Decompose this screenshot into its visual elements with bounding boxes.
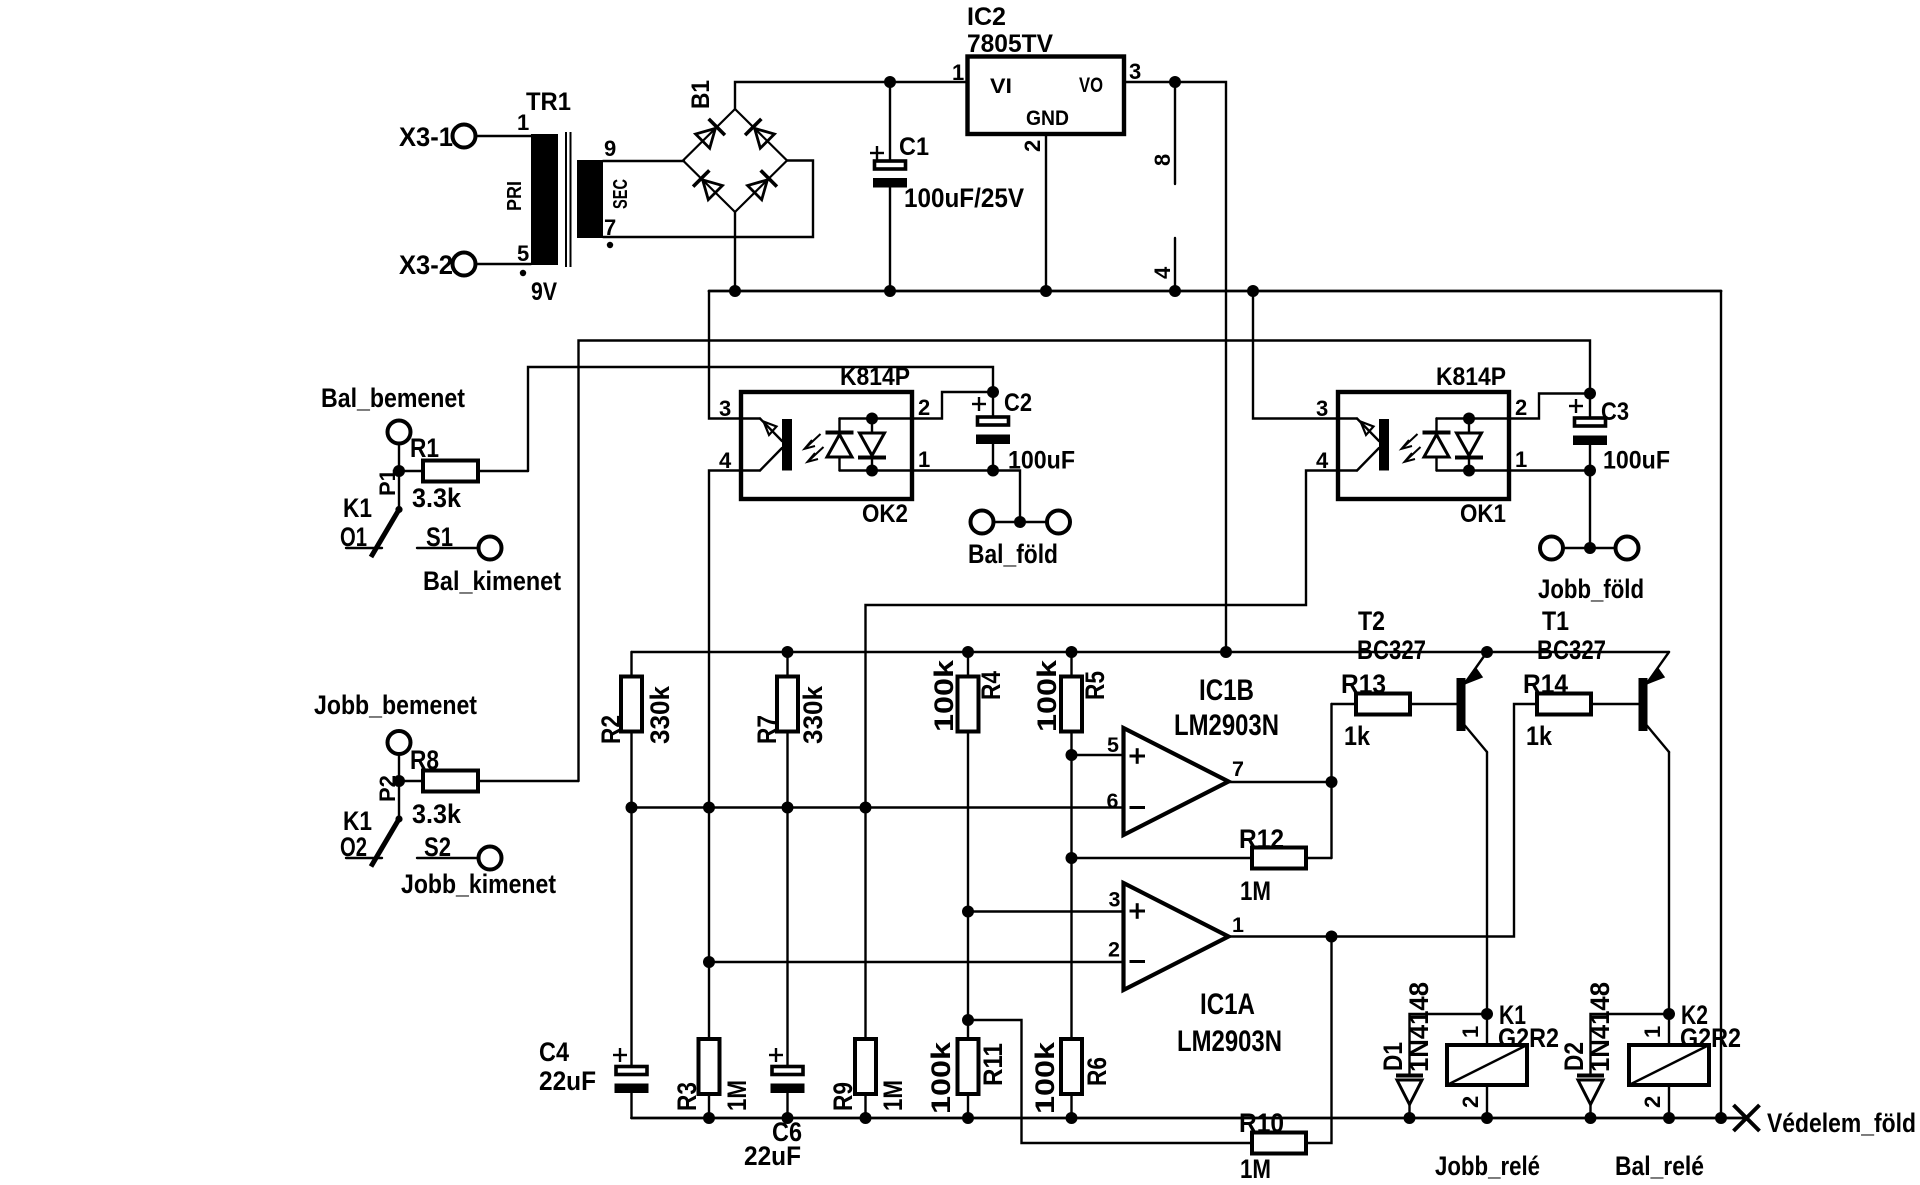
svg-text:100uF/25V: 100uF/25V: [904, 183, 1024, 213]
svg-text:2: 2: [1020, 140, 1045, 152]
wire IC1A minus input line: [709, 961, 1124, 963]
wire bus left down to OK2 pin3: [709, 291, 741, 419]
svg-text:Bal_föld: Bal_föld: [968, 539, 1058, 569]
svg-text:1k: 1k: [1344, 721, 1371, 751]
svg-text:1M: 1M: [1240, 876, 1271, 906]
optocoupler OK1 K814P: [1316, 363, 1527, 528]
svg-text:GND: GND: [1026, 107, 1069, 130]
svg-text:BC327: BC327: [1537, 635, 1606, 665]
wire net R1 to OK2 pin2 area: [528, 367, 993, 471]
node dot VO: [1169, 76, 1181, 88]
svg-text:22uF: 22uF: [744, 1141, 801, 1171]
svg-text:2: 2: [1458, 1096, 1483, 1108]
capacitor C3: [1569, 394, 1670, 475]
svg-text:1k: 1k: [1526, 721, 1553, 751]
svg-text:P2: P2: [375, 775, 400, 802]
capacitor C2: [972, 389, 1075, 475]
svg-text:1M: 1M: [1240, 1154, 1271, 1184]
B1 diode bottom-right: [747, 170, 777, 200]
svg-text:T2: T2: [1358, 606, 1385, 636]
svg-text:1M: 1M: [722, 1080, 752, 1111]
wire OK2 pin4 down left column: [709, 471, 741, 1040]
svg-text:C3: C3: [1601, 398, 1629, 426]
B1 diode top-left: [695, 119, 725, 149]
svg-text:K1: K1: [343, 493, 372, 523]
svg-text:2: 2: [1108, 938, 1120, 962]
transistor T2 BC327: [1357, 606, 1487, 752]
svg-text:Bal_relé: Bal_relé: [1615, 1151, 1704, 1181]
node dots on bus: [729, 285, 741, 297]
svg-text:C4: C4: [539, 1037, 569, 1067]
wire IC1A plus input line: [968, 910, 1124, 912]
svg-text:1N4148: 1N4148: [1404, 982, 1434, 1072]
wire OK2 pin1 to Bal_fold: [912, 471, 1020, 523]
resistor R1: [399, 433, 528, 513]
diode D1 1N4148: [1378, 982, 1434, 1118]
resistor R10: [1239, 937, 1332, 1185]
svg-text:2: 2: [1515, 395, 1527, 420]
svg-text:VO: VO: [1079, 74, 1103, 97]
svg-text:4: 4: [1316, 448, 1329, 473]
resistor R9: [828, 1039, 908, 1118]
wire TR1 sec7 to B1 right: [603, 161, 813, 238]
svg-text:K814P: K814P: [1436, 363, 1506, 391]
svg-text:R3: R3: [672, 1082, 702, 1111]
connector Jobb_kimenet: [401, 847, 556, 900]
svg-text:4: 4: [719, 448, 732, 473]
svg-text:1: 1: [1640, 1026, 1665, 1038]
svg-text:R6: R6: [1082, 1057, 1112, 1086]
svg-text:5: 5: [1107, 733, 1119, 757]
wire IC2 GND pin2 down: [1045, 134, 1047, 291]
resistor R4: [929, 652, 1006, 1039]
svg-text:X3-2: X3-2: [399, 250, 453, 280]
svg-text:IC2: IC2: [967, 3, 1006, 31]
svg-text:BC327: BC327: [1357, 635, 1426, 665]
bus wire minus rail: [709, 290, 1721, 293]
svg-text:1: 1: [952, 60, 964, 85]
svg-text:3.3k: 3.3k: [412, 799, 462, 829]
wire Bal_bemenet down: [398, 444, 400, 510]
wire R10 branch: [968, 1020, 1252, 1143]
svg-text:Jobb_relé: Jobb_relé: [1435, 1151, 1540, 1181]
wire right vertical to ground: [1720, 291, 1722, 1118]
svg-text:100k: 100k: [929, 659, 959, 732]
svg-text:Védelem_föld: Védelem_föld: [1767, 1108, 1916, 1138]
svg-text:22uF: 22uF: [539, 1066, 596, 1096]
svg-text:5: 5: [517, 241, 529, 266]
connector Jobb_fold: [1538, 537, 1644, 605]
wire R13 link vertical: [1330, 704, 1332, 858]
svg-text:R2: R2: [596, 715, 626, 744]
svg-text:330k: 330k: [798, 685, 828, 744]
svg-text:LM2903N: LM2903N: [1177, 1025, 1282, 1058]
node dot C2 top: [987, 386, 999, 398]
svg-text:TR1: TR1: [526, 88, 571, 116]
ground dots relay area: [1404, 1112, 1416, 1124]
wire net R8 to OK1 pin2 area: [579, 341, 1591, 782]
svg-text:R4: R4: [976, 671, 1006, 700]
svg-text:1: 1: [918, 447, 930, 472]
capacitor C6: [744, 1048, 805, 1171]
svg-text:2: 2: [918, 395, 930, 420]
svg-text:PRI: PRI: [504, 181, 526, 211]
wire T1 collector to K2: [1668, 752, 1670, 1045]
resistor R6: [1030, 1039, 1112, 1118]
svg-text:LM2903N: LM2903N: [1174, 709, 1279, 742]
svg-text:6: 6: [1107, 789, 1119, 813]
ground symbol Vedelem_fold: [1734, 1105, 1917, 1138]
wire OK1 pin2 to C3: [1509, 394, 1590, 419]
resistor R2: [596, 652, 675, 1068]
svg-text:SEC: SEC: [610, 179, 632, 209]
connector X3-1: [399, 122, 476, 152]
svg-text:1: 1: [1232, 913, 1244, 937]
op-amp IC1A: [1108, 883, 1282, 1058]
node dot at C1 top: [884, 76, 896, 88]
svg-text:1: 1: [1458, 1026, 1483, 1038]
svg-text:OK1: OK1: [1460, 500, 1506, 528]
transistor T1 BC327: [1537, 606, 1669, 752]
resistor R3: [672, 1039, 752, 1118]
svg-text:IC1B: IC1B: [1199, 674, 1254, 707]
svg-text:9: 9: [604, 136, 616, 161]
svg-text:K814P: K814P: [840, 363, 910, 391]
connector Bal_fold: [968, 511, 1070, 570]
wire D2 top: [1591, 1014, 1670, 1074]
optocoupler OK2 K814P: [719, 363, 930, 528]
svg-text:Jobb_bemenet: Jobb_bemenet: [314, 690, 477, 720]
connector Jobb_bemenet: [314, 690, 477, 754]
svg-text:C2: C2: [1004, 389, 1032, 417]
svg-text:3: 3: [1316, 396, 1328, 421]
svg-text:2: 2: [1640, 1096, 1665, 1108]
switch K1 upper: [340, 493, 478, 557]
svg-text:8: 8: [1150, 154, 1175, 166]
transformer TR1: [504, 88, 632, 306]
bridge rectifier B1: [683, 80, 787, 212]
wire IC1A output to R14: [1229, 704, 1538, 937]
svg-text:1M: 1M: [878, 1080, 908, 1111]
B1 diode bottom-left: [693, 170, 723, 200]
capacitor C4: [539, 1037, 649, 1118]
capacitor C1: [870, 82, 1024, 291]
wire X3-1 to TR1 pin1: [476, 135, 531, 137]
svg-text:100k: 100k: [1030, 1041, 1060, 1114]
svg-text:3.3k: 3.3k: [412, 483, 462, 513]
svg-text:100uF: 100uF: [1603, 447, 1670, 475]
svg-text:C1: C1: [899, 133, 929, 161]
connector Bal_kimenet: [423, 537, 561, 597]
svg-text:R9: R9: [828, 1082, 858, 1111]
svg-text:7805TV: 7805TV: [967, 30, 1053, 58]
wire T2 collector to K1: [1486, 752, 1488, 1045]
svg-text:X3-1: X3-1: [399, 122, 453, 152]
svg-text:1: 1: [517, 110, 529, 135]
svg-text:330k: 330k: [645, 685, 675, 744]
node P1: [393, 465, 405, 477]
supply rail: [632, 651, 1670, 653]
connector Bal_bemenet: [321, 383, 465, 444]
op-amp IC1B: [1107, 674, 1280, 835]
switch K1 lower: [340, 806, 478, 867]
resistor R8: [399, 745, 579, 829]
wire X3-2 to TR1 pin5: [476, 263, 531, 265]
svg-text:3: 3: [1109, 888, 1121, 912]
wire D1 top: [1410, 1014, 1488, 1074]
wire B1 plus to IC2 VI: [735, 82, 967, 109]
wire OK1 pin4 to comparator area: [866, 471, 1339, 1040]
net stub 4: [1174, 238, 1176, 291]
svg-text:9V: 9V: [531, 278, 557, 306]
svg-text:VI: VI: [990, 75, 1012, 98]
svg-text:OK2: OK2: [862, 500, 908, 528]
svg-text:3: 3: [1129, 59, 1141, 84]
svg-text:Bal_bemenet: Bal_bemenet: [321, 383, 465, 413]
svg-text:IC1A: IC1A: [1200, 988, 1255, 1021]
wire Jobb_bemenet down: [398, 754, 400, 819]
wire OK2 pin2 to C2: [912, 392, 993, 419]
svg-text:R5: R5: [1080, 671, 1110, 700]
node P2: [393, 775, 405, 787]
diode D2 1N4148: [1559, 982, 1615, 1118]
svg-text:T1: T1: [1542, 606, 1569, 636]
wire IC2 VO to right: [1124, 82, 1226, 652]
connector X3-2: [399, 250, 476, 280]
resistor R5: [1032, 652, 1110, 1039]
svg-text:4: 4: [1150, 266, 1175, 279]
resistor R11: [926, 1039, 1008, 1118]
svg-text:100k: 100k: [1032, 659, 1062, 732]
svg-text:1: 1: [1515, 447, 1527, 472]
voltage regulator IC2 7805TV: [952, 3, 1141, 152]
svg-text:R7: R7: [752, 715, 782, 744]
svg-text:Jobb_kimenet: Jobb_kimenet: [401, 869, 556, 899]
net stub 8: [1174, 82, 1176, 184]
wire TR1 sec9 to B1: [603, 160, 684, 162]
resistor R7: [752, 652, 828, 1068]
wire bus to OK1 pin3: [1253, 291, 1338, 419]
svg-text:R11: R11: [978, 1043, 1008, 1086]
svg-text:Bal_kimenet: Bal_kimenet: [423, 566, 561, 596]
wire IC1B plus input line: [1072, 754, 1124, 756]
svg-text:7: 7: [1232, 757, 1244, 781]
wire IC1B minus input line: [632, 806, 1124, 808]
node dot C3 top: [1584, 388, 1596, 400]
svg-text:100k: 100k: [926, 1041, 956, 1114]
relay K2 G2R2: [1629, 1000, 1741, 1118]
resistor R12: [1066, 824, 1332, 906]
resistor R13: [1332, 669, 1457, 751]
wire OK1 pin1 to Jobb_fold: [1509, 471, 1590, 549]
ground line bottom: [632, 1117, 1745, 1120]
B1 diode top-right: [745, 119, 775, 149]
resistor R14: [1523, 669, 1639, 751]
wire IC1B output: [1229, 781, 1332, 783]
svg-text:1N4148: 1N4148: [1585, 982, 1615, 1072]
svg-text:B1: B1: [687, 80, 715, 109]
svg-text:Jobb_föld: Jobb_föld: [1538, 574, 1644, 604]
svg-text:3: 3: [719, 396, 731, 421]
svg-text:P1: P1: [375, 469, 400, 496]
wire B1 minus down to bus: [734, 212, 736, 291]
relay K1 G2R2: [1447, 1000, 1559, 1118]
